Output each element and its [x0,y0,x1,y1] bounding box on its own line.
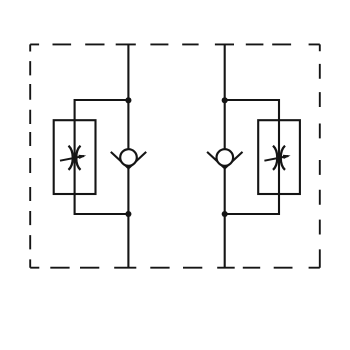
throttle FC1 arrow head [79,155,87,159]
wire: right bypass branch [225,100,279,214]
throttle valve FC1 body rectangle [54,120,96,194]
enclosure dashed boundary right edge [319,44,321,267]
enclosure dashed boundary bottom edge [30,267,320,269]
junction dot node A bottom [125,211,131,217]
junction dot node A top [125,97,131,103]
enclosure dashed boundary top edge [30,43,320,45]
junction dot node B bottom [222,211,228,217]
throttle FC2 adjustment arrow shaft [264,156,288,161]
wire: right main flow line B [224,44,226,267]
throttle FC1 restriction arcs [69,146,81,170]
throttle FC2 restriction arcs [273,146,285,170]
wire: left bypass branch [75,100,129,214]
throttle valve FC2 body rectangle [258,120,300,194]
throttle FC1 adjustment arrow shaft [60,156,84,161]
enclosure dashed boundary left edge [29,44,31,267]
junction dot node B top [222,97,228,103]
check valve CV1 seat [111,152,146,168]
wire: left main flow line A [127,44,129,267]
check valve CV2 ball [217,149,234,166]
check valve CV1 ball [120,149,137,166]
throttle FC2 arrow head [283,155,291,159]
check valve CV2 seat [207,152,242,168]
